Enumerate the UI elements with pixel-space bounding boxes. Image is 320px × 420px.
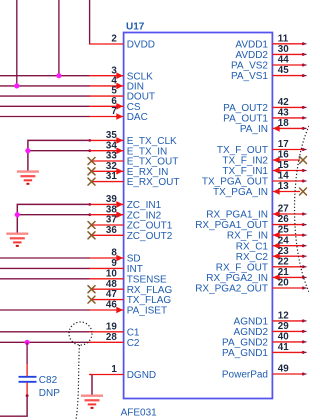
- wire below C82 to left edge: [0, 396, 27, 417]
- svg-text:11: 11: [278, 33, 289, 44]
- wire to pin 9 INT: [0, 267, 90, 269]
- svg-text:20: 20: [278, 278, 289, 289]
- pin 21 RX_PGA2_IN (right): [206, 267, 306, 284]
- pin 44 PA_VS2 (right): [231, 55, 307, 72]
- pin 2 DVDD (left): [89, 34, 155, 51]
- junction dot pins 34/35 net: [25, 148, 30, 153]
- pin 18 PA_IN (right): [240, 118, 307, 135]
- ground for DGND: [81, 396, 103, 408]
- pin 34 E_TX_IN (left): [88, 140, 167, 157]
- pin 43 PA_OUT1 (right): [223, 108, 306, 125]
- svg-text:16: 16: [278, 150, 289, 161]
- pin 33 E_TX_OUT (left): [88, 151, 178, 168]
- annotation dotted circle around C1/C2 wires: [69, 322, 92, 345]
- svg-text:26: 26: [278, 214, 289, 225]
- ground for ZC net: [6, 234, 28, 246]
- pin 10 TSENSE (left): [89, 268, 167, 285]
- pin 22 RX_F_OUT (right): [216, 256, 307, 273]
- pin 12 AGND1 (right): [234, 311, 307, 328]
- pin 15 TX_F_IN1 (right): [222, 160, 306, 177]
- svg-text:21: 21: [278, 267, 289, 278]
- ground for E_TX net: [17, 172, 39, 184]
- svg-text:E_RX_OUT: E_RX_OUT: [127, 177, 180, 188]
- pin 1 DGND (left): [89, 364, 156, 381]
- pin 39 ZC_IN1 (left): [88, 194, 161, 211]
- svg-text:24: 24: [278, 235, 289, 246]
- pin 38 ZC_IN2 (left): [88, 204, 161, 221]
- svg-text:42: 42: [278, 97, 289, 108]
- wire pin 39 ZC_IN1 to ground: [17, 204, 90, 233]
- pin 16 TX_F_IN2 (right): [222, 150, 306, 167]
- svg-text:10: 10: [106, 268, 117, 279]
- svg-text:PA_VS1: PA_VS1: [231, 71, 268, 82]
- svg-text:RX_F_OUT: RX_F_OUT: [216, 262, 268, 273]
- pin 45 PA_VS1 (right): [231, 65, 307, 82]
- svg-text:DNP: DNP: [39, 388, 60, 399]
- svg-text:40: 40: [278, 332, 289, 343]
- svg-text:PA_VS2: PA_VS2: [231, 61, 268, 72]
- pin 24 RX_C1 (right): [236, 235, 307, 252]
- wire to pin 7 DAC: [0, 116, 90, 118]
- svg-text:TX_F_OUT: TX_F_OUT: [217, 145, 268, 156]
- svg-text:TX_F_IN1: TX_F_IN1: [222, 166, 268, 177]
- svg-text:AVDD2: AVDD2: [235, 50, 268, 61]
- wire pin 34 E_TX_IN: [28, 150, 90, 152]
- pin 3 SCLK (left): [89, 65, 153, 82]
- svg-text:9: 9: [111, 258, 117, 269]
- pin 19 C1 (left): [89, 321, 140, 338]
- svg-text:AVDD1: AVDD1: [235, 39, 268, 50]
- svg-text:DGND: DGND: [127, 370, 156, 381]
- svg-text:RX_PGA1_OUT: RX_PGA1_OUT: [195, 220, 268, 231]
- wire pin 38 ZC_IN2: [17, 214, 90, 216]
- svg-text:PA_IN: PA_IN: [240, 124, 268, 135]
- svg-text:PA_GND2: PA_GND2: [222, 338, 268, 349]
- junction dot C2 net / C82: [25, 340, 30, 345]
- svg-text:30: 30: [278, 44, 289, 55]
- svg-text:41: 41: [278, 342, 289, 353]
- svg-text:TSENSE: TSENSE: [127, 274, 167, 285]
- svg-text:45: 45: [278, 65, 289, 76]
- wire to pin 19 C1: [0, 331, 90, 333]
- wire to pin 10 TSENSE: [0, 278, 90, 280]
- svg-text:7: 7: [111, 106, 117, 117]
- svg-text:19: 19: [106, 321, 117, 332]
- annotation dotted leader line: [76, 345, 80, 420]
- pin 29 AGND2 (right): [234, 321, 307, 338]
- wire vertical net to pin 4 (DIN): [16, 0, 18, 86]
- wire to pin 46 PA_ISET: [0, 309, 90, 311]
- wire to pin 3 SCLK: [0, 75, 90, 77]
- pin 14 TX_PGA_OUT (right): [202, 171, 307, 188]
- annotation dotted ellipse right (RX cluster): [295, 104, 320, 314]
- pin 47 TX_FLAG (left): [88, 289, 171, 306]
- svg-text:TX_PGA_IN: TX_PGA_IN: [213, 187, 268, 198]
- svg-text:AFE031: AFE031: [121, 407, 158, 418]
- svg-text:2: 2: [111, 34, 117, 45]
- svg-text:AGND1: AGND1: [234, 317, 269, 328]
- svg-text:43: 43: [278, 108, 289, 119]
- svg-text:DAC: DAC: [127, 112, 148, 123]
- pin 36 ZC_OUT2 (left): [88, 225, 173, 242]
- pin 4 DIN (left): [89, 76, 144, 93]
- pin 49 PowerPad (right): [222, 364, 307, 381]
- svg-text:SD: SD: [127, 254, 141, 265]
- svg-text:27: 27: [278, 204, 289, 215]
- svg-text:14: 14: [278, 171, 289, 182]
- pin 23 RX_C2 (right): [236, 246, 307, 263]
- svg-text:DVDD: DVDD: [127, 40, 155, 51]
- pin 30 AVDD2 (right): [235, 44, 306, 61]
- pin 27 RX_PGA1_IN (right): [206, 204, 306, 221]
- pin 26 RX_PGA1_OUT (right): [195, 214, 306, 231]
- svg-text:RX_PGA2_OUT: RX_PGA2_OUT: [195, 284, 268, 295]
- svg-text:INT: INT: [127, 264, 143, 275]
- pin 7 DAC (left): [89, 106, 148, 123]
- svg-text:U17: U17: [126, 21, 145, 32]
- svg-text:17: 17: [278, 139, 289, 150]
- pin 8 SD (left): [89, 248, 141, 265]
- pin 48 RX_FLAG (left): [88, 279, 172, 296]
- svg-text:8: 8: [111, 248, 117, 259]
- pin 25 RX_F_IN (right): [227, 225, 307, 242]
- pin 42 PA_OUT2 (right): [223, 97, 306, 114]
- wire pin 1 DGND to ground: [91, 375, 93, 396]
- svg-text:13: 13: [278, 181, 289, 192]
- svg-text:36: 36: [106, 225, 117, 236]
- svg-text:TX_F_IN2: TX_F_IN2: [222, 156, 268, 167]
- wire to pin 5 DOUT: [0, 95, 90, 97]
- svg-text:12: 12: [278, 311, 289, 322]
- svg-text:46: 46: [106, 300, 117, 311]
- svg-text:31: 31: [106, 171, 117, 182]
- wire to pin 28 C2: [0, 341, 90, 343]
- svg-text:RX_F_IN: RX_F_IN: [227, 231, 268, 242]
- pin 41 PA_GND1 (right): [222, 342, 306, 359]
- pin 37 ZC_OUT1 (left): [88, 215, 173, 232]
- wire pin 35 E_TX_CLK to ground: [28, 140, 90, 171]
- svg-text:TX_FLAG: TX_FLAG: [127, 295, 172, 306]
- pin 5 DOUT (left): [89, 86, 155, 103]
- pin 31 E_RX_OUT (left): [88, 171, 179, 188]
- svg-text:RX_C2: RX_C2: [236, 252, 269, 263]
- wire vertical + corner to pin 2 (DVDD): [89, 0, 91, 44]
- svg-text:PowerPad: PowerPad: [222, 370, 268, 381]
- pin 32 E_RX_IN (left): [88, 161, 168, 178]
- pin 9 INT (left): [89, 258, 143, 275]
- svg-text:48: 48: [106, 279, 117, 290]
- svg-text:44: 44: [278, 55, 289, 66]
- pin 46 PA_ISET (left): [89, 300, 167, 317]
- svg-text:PA_OUT2: PA_OUT2: [223, 103, 268, 114]
- svg-text:AGND2: AGND2: [234, 327, 269, 338]
- svg-text:C82: C82: [39, 375, 58, 386]
- wire to pin 6 CS: [0, 105, 90, 107]
- wire C2 net down to C82: [26, 342, 28, 364]
- svg-text:15: 15: [278, 160, 289, 171]
- svg-text:TX_PGA_OUT: TX_PGA_OUT: [202, 177, 268, 188]
- pin 28 C2 (left): [89, 332, 140, 349]
- pin 40 PA_GND2 (right): [222, 332, 306, 349]
- pin 17 TX_F_OUT (right): [217, 139, 307, 156]
- svg-text:PA_ISET: PA_ISET: [127, 306, 167, 317]
- pin 35 E_TX_CLK (left): [88, 130, 177, 147]
- pin 20 RX_PGA2_OUT (right): [195, 278, 306, 295]
- capacitor C82: [19, 364, 37, 397]
- svg-text:RX_C1: RX_C1: [236, 241, 269, 252]
- svg-text:C2: C2: [127, 338, 140, 349]
- op-amp/IC body U17 AFE031: [124, 33, 273, 399]
- svg-text:RX_PGA1_IN: RX_PGA1_IN: [206, 210, 268, 221]
- svg-text:ZC_OUT2: ZC_OUT2: [127, 231, 173, 242]
- svg-text:47: 47: [106, 289, 117, 300]
- wire vertical net to pin 3 (SCLK): [58, 0, 60, 76]
- svg-text:25: 25: [278, 225, 289, 236]
- pin 11 AVDD1 (right): [235, 33, 306, 50]
- wire to pin 4 DIN: [0, 85, 90, 87]
- junction dot DIN net: [14, 83, 19, 88]
- svg-text:PA_OUT1: PA_OUT1: [223, 114, 268, 125]
- svg-text:1: 1: [111, 364, 117, 375]
- svg-text:RX_PGA2_IN: RX_PGA2_IN: [206, 273, 268, 284]
- svg-text:29: 29: [278, 321, 289, 332]
- pin 13 TX_PGA_IN (right): [213, 181, 307, 198]
- junction dot SCLK net: [56, 73, 61, 78]
- pin 6 CS (left): [89, 96, 141, 113]
- svg-text:RX_FLAG: RX_FLAG: [127, 285, 173, 296]
- junction dot ZC net: [15, 212, 20, 217]
- svg-text:49: 49: [278, 364, 289, 375]
- svg-text:C1: C1: [127, 327, 140, 338]
- svg-text:28: 28: [106, 332, 117, 343]
- svg-text:23: 23: [278, 246, 289, 257]
- svg-text:18: 18: [278, 118, 289, 129]
- wire to pin 8 SD: [0, 257, 90, 259]
- svg-text:PA_GND1: PA_GND1: [222, 348, 268, 359]
- svg-text:22: 22: [278, 256, 289, 267]
